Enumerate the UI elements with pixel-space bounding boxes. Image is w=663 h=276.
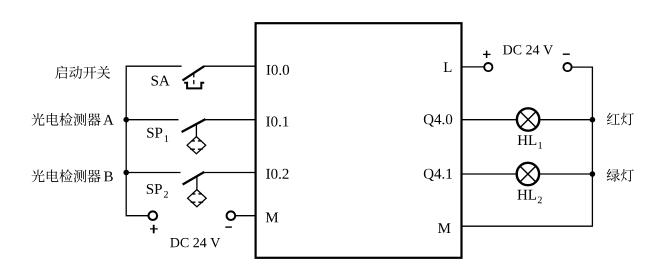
junction node red lamp bbox=[590, 117, 596, 123]
wire from bus to switch SA bbox=[126, 65, 182, 67]
label HL1 bbox=[518, 135, 542, 148]
terminal - (left supply) bbox=[227, 211, 236, 220]
switch SA maintained-position bracket bbox=[184, 83, 204, 89]
wire minus terminal to right rail bbox=[572, 67, 593, 226]
label 红灯 (red lamp) bbox=[607, 113, 634, 126]
switch SP1 blade bbox=[182, 119, 206, 132]
wire M (right) to right rail bbox=[461, 225, 593, 227]
pin label L bbox=[444, 62, 452, 72]
sensor SP1 linkage bbox=[195, 124, 197, 136]
wire from bus to switch SP2 bbox=[126, 172, 180, 174]
wire lamp HL2 to right rail bbox=[540, 173, 593, 175]
wire SA to I0.0 bbox=[203, 65, 256, 67]
value label DC 24 V (right supply) bbox=[503, 45, 553, 55]
pin label Q4.1 bbox=[424, 169, 452, 181]
switch SA operator linkage (dashed) bbox=[193, 73, 195, 86]
value label DC 24 V (left supply) bbox=[170, 238, 220, 248]
label HL2 bbox=[517, 190, 541, 203]
switch SA blade bbox=[183, 66, 205, 80]
wire minus terminal to M (left) bbox=[235, 215, 256, 217]
label SP1 bbox=[147, 128, 168, 142]
sensor SP2 proximity diamond bbox=[188, 190, 207, 207]
lamp HL2 bbox=[517, 163, 539, 185]
label + (left supply) bbox=[150, 225, 158, 234]
junction node green lamp bbox=[590, 171, 596, 177]
terminal + (left supply) bbox=[149, 211, 158, 220]
label SA bbox=[152, 76, 170, 86]
terminal + (right supply) bbox=[484, 63, 492, 71]
pin label I0.1 bbox=[266, 116, 288, 126]
wire from bus to switch SP1 bbox=[126, 119, 178, 121]
label - (left supply) bbox=[225, 226, 232, 228]
terminal - (right supply) bbox=[563, 63, 571, 71]
wire L to plus terminal bbox=[461, 66, 484, 68]
wire left supply bus bbox=[126, 66, 148, 216]
wire Q4.0 to lamp HL1 bbox=[461, 119, 516, 121]
wire lamp HL1 to right rail bbox=[540, 119, 593, 121]
PLC main unit U1 bbox=[256, 23, 462, 258]
label SP2 bbox=[147, 184, 168, 198]
pin label M (right) bbox=[438, 223, 451, 233]
wire SP1 to I0.1 bbox=[205, 119, 256, 121]
node B junction on bus bbox=[123, 170, 129, 176]
pin label I0.2 bbox=[266, 169, 288, 179]
lamp HL1 bbox=[517, 108, 539, 130]
sensor SP2 linkage bbox=[196, 177, 198, 190]
label - (right supply) bbox=[563, 53, 570, 55]
label 启动开关 (start switch) bbox=[55, 66, 110, 79]
label + (right supply) bbox=[483, 51, 491, 58]
switch SP2 blade bbox=[183, 172, 205, 185]
pin label Q4.0 bbox=[424, 114, 452, 126]
pin label M (left) bbox=[266, 213, 279, 223]
label 光电检测器B (photoelectric detector B) bbox=[32, 170, 113, 183]
wire Q4.1 to lamp HL2 bbox=[461, 173, 516, 175]
label 绿灯 (green lamp) bbox=[607, 169, 634, 182]
wire SP2 to I0.2 bbox=[204, 172, 256, 174]
node A junction on bus bbox=[123, 117, 129, 123]
pin label I0.0 bbox=[266, 65, 289, 75]
label 光电检测器A (photoelectric detector A) bbox=[32, 113, 114, 126]
sensor SP1 proximity diamond bbox=[187, 137, 206, 154]
